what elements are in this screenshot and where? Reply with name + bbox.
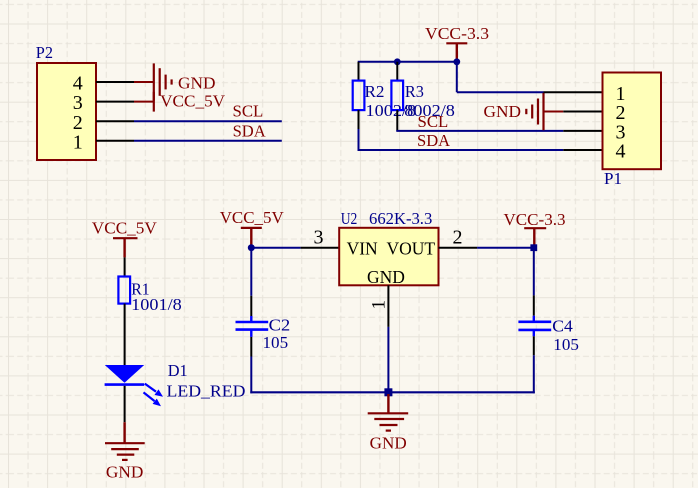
power port VCC-3.3 bar	[524, 227, 546, 229]
junction at R3 top	[394, 58, 401, 65]
svg-text:VOUT: VOUT	[387, 239, 436, 259]
P1 pin 3 stub	[563, 130, 602, 132]
P1 pin 2 stub	[563, 111, 602, 113]
LED D1 emission arrow 1	[145, 384, 163, 397]
power port VCC_5V stub	[123, 238, 125, 257]
svg-text:1001/8: 1001/8	[131, 295, 182, 314]
resistor R2 body	[353, 81, 365, 111]
svg-text:GND: GND	[484, 102, 522, 121]
svg-text:P2: P2	[36, 43, 53, 62]
wire C2 to ground rail	[250, 357, 252, 394]
P1 pin 1 stub	[544, 91, 603, 93]
resistor R1 body	[118, 277, 130, 304]
resistor R3 top pin	[396, 62, 398, 81]
svg-text:R3: R3	[405, 82, 424, 101]
wire R1 to LED anode	[124, 304, 126, 366]
wire to P1 pin 1	[457, 91, 544, 93]
svg-text:U2: U2	[341, 209, 358, 228]
junction at VIN node	[248, 244, 255, 251]
svg-text:GND: GND	[367, 267, 405, 287]
capacitor C4 top lead	[533, 316, 535, 322]
resistor R2 bottom pin	[358, 110, 360, 130]
wire SCL (from P2 pin 2)	[134, 120, 282, 122]
power port VCC_5V bar	[241, 227, 262, 229]
U2 GND pin (pin 1)	[387, 285, 389, 327]
svg-text:1: 1	[73, 131, 83, 153]
svg-text:VIN: VIN	[347, 239, 378, 259]
P2 pin 3 stub	[96, 101, 134, 103]
ground rail wire	[250, 391, 535, 393]
svg-text:SDA: SDA	[417, 131, 451, 150]
power port VCC-3.3 bar	[446, 42, 467, 44]
P1 pin 4 stub	[563, 149, 602, 151]
LED D1 cathode bar	[105, 383, 145, 386]
svg-text:LED_RED: LED_RED	[167, 381, 246, 400]
wire LED cathode down	[124, 386, 126, 422]
power port VCC-3.3 stub	[533, 228, 535, 246]
capacitor C2 top lead	[250, 316, 252, 322]
svg-text:GND: GND	[106, 462, 143, 481]
capacitor C2 plates	[236, 322, 269, 330]
wire VIN node to U2 pin 3	[251, 247, 300, 249]
power port GND (right-facing bars)	[154, 63, 172, 100]
U2 pin 3 stub	[301, 247, 340, 249]
wire GND to P1 pin 2	[544, 111, 564, 113]
P2 pin 2 stub	[96, 120, 134, 122]
wire VOUT node down to C4	[533, 248, 535, 296]
connector P2 body	[37, 63, 96, 160]
wire pin4 to GND port	[134, 81, 154, 83]
svg-text:C4: C4	[552, 317, 573, 336]
wire SDA row to P1 pin 4	[358, 149, 564, 151]
capacitor C4 plates	[518, 322, 551, 330]
svg-text:105: 105	[553, 335, 579, 354]
svg-text:2: 2	[453, 226, 463, 248]
wire SCL row to P1 pin 3	[396, 130, 563, 132]
svg-text:P1: P1	[604, 169, 622, 188]
wire VCC to R1	[124, 257, 126, 276]
wire U2 GND pin to rail	[387, 327, 389, 392]
svg-text:4: 4	[616, 141, 626, 163]
svg-text:R2: R2	[365, 82, 385, 101]
P2 pin 4 stub	[96, 81, 134, 83]
power port GND bars (rail)	[368, 413, 409, 430]
wire VIN node down to C2	[250, 248, 252, 296]
power port VCC_5V stub	[250, 228, 252, 248]
wire pin3 to VCC_5V port	[134, 101, 154, 103]
svg-text:D1: D1	[168, 361, 188, 380]
svg-text:GND: GND	[370, 434, 407, 453]
P2 pin 1 stub	[96, 140, 134, 142]
junction at VCC-3.3	[453, 58, 460, 65]
junction at VOUT node	[530, 244, 537, 251]
resistor R2 top pin	[358, 62, 360, 81]
svg-text:VCC_5V: VCC_5V	[160, 91, 226, 110]
svg-text:SDA: SDA	[233, 122, 267, 141]
svg-text:105: 105	[263, 333, 289, 352]
resistor R3 bottom pin	[396, 110, 398, 131]
svg-text:GND: GND	[178, 73, 216, 92]
svg-text:VCC-3.3: VCC-3.3	[425, 24, 489, 43]
svg-text:SCL: SCL	[418, 112, 449, 131]
junction at ground rail	[384, 388, 392, 396]
wire C4 to ground rail	[533, 355, 535, 393]
wire U2 pin 2 to VCC-3.3 node	[477, 247, 534, 249]
power port VCC-3.3 stub	[456, 43, 458, 62]
power port VCC_5V bar	[153, 92, 155, 112]
svg-text:3: 3	[314, 226, 324, 248]
capacitor C4 bottom lead	[533, 330, 535, 336]
capacitor C2 bottom lead	[250, 330, 252, 337]
wire VCC junction down	[456, 62, 458, 92]
LED D1 emission arrow 2	[144, 392, 162, 406]
capacitor C4 top pin	[533, 295, 535, 315]
capacitor C2 bottom pin	[250, 337, 252, 357]
LED D1 triangle	[105, 365, 144, 383]
svg-text:VCC_5V: VCC_5V	[220, 208, 285, 227]
power port VCC_5V bar	[113, 237, 138, 239]
power port GND stub (rail)	[387, 394, 389, 413]
svg-text:662K-3.3: 662K-3.3	[369, 209, 432, 228]
svg-text:SCL: SCL	[233, 101, 264, 120]
U2 pin 2 stub	[439, 247, 478, 249]
svg-text:1: 1	[369, 300, 390, 310]
regulator U2 body	[339, 228, 438, 285]
wire top horizontal rail	[358, 61, 457, 63]
svg-text:VCC_5V: VCC_5V	[92, 218, 158, 237]
wire R2 to SDA row	[358, 129, 360, 151]
connector P1 body	[603, 73, 662, 170]
svg-text:C2: C2	[269, 315, 291, 334]
capacitor C4 bottom pin	[533, 336, 535, 355]
capacitor C2 top pin	[250, 296, 252, 316]
wire SDA (from P2 pin 1)	[134, 140, 282, 142]
power port GND stub (LED)	[123, 422, 125, 443]
svg-text:VCC-3.3: VCC-3.3	[504, 210, 566, 229]
power port GND bars (LED)	[105, 443, 145, 460]
power port GND near P1 (left-facing bars)	[526, 93, 543, 130]
resistor R3 body	[391, 81, 403, 111]
